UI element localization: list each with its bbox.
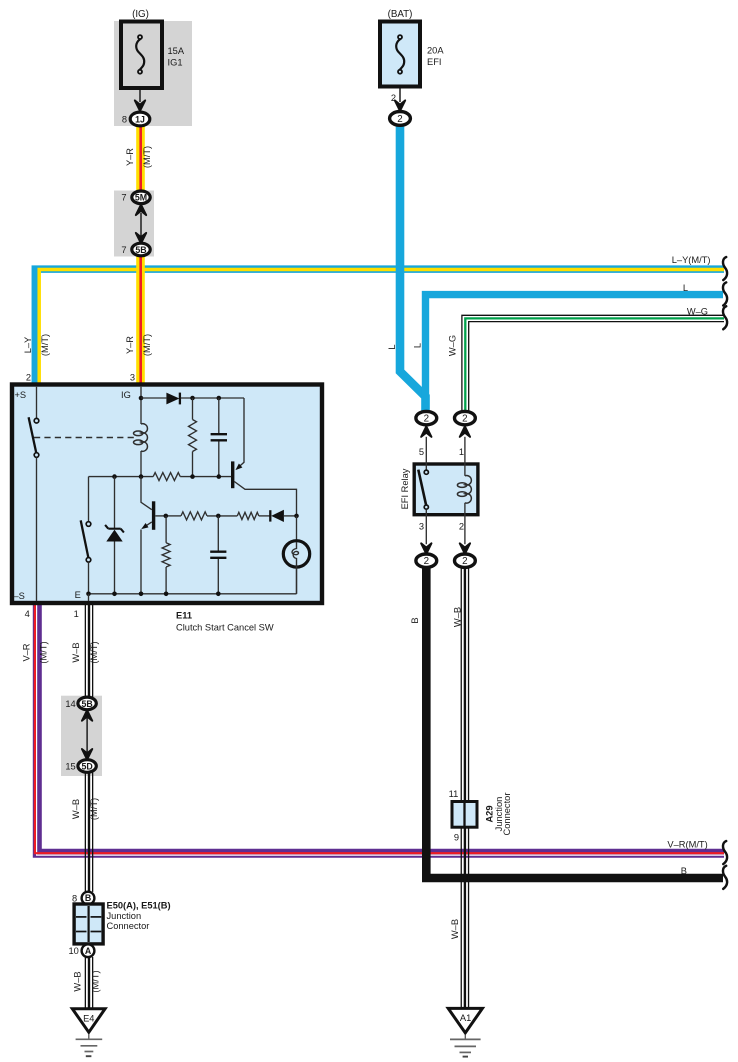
svg-text:(M/T): (M/T): [89, 798, 99, 820]
svg-text:9: 9: [454, 833, 459, 843]
svg-text:W–G: W–G: [448, 335, 458, 356]
svg-text:7: 7: [121, 193, 126, 203]
svg-text:20A: 20A: [427, 46, 444, 56]
svg-text:(BAT): (BAT): [388, 9, 413, 20]
svg-text:11: 11: [449, 789, 459, 799]
svg-text:EFI: EFI: [427, 57, 441, 67]
svg-text:2: 2: [459, 521, 464, 531]
svg-text:IG1: IG1: [168, 58, 183, 68]
svg-text:15: 15: [65, 761, 75, 771]
svg-text:3: 3: [130, 373, 135, 383]
svg-text:EFI Relay: EFI Relay: [400, 468, 410, 509]
svg-text:Connector: Connector: [502, 793, 512, 836]
svg-text:10: 10: [69, 946, 79, 956]
svg-text:L: L: [413, 343, 423, 348]
svg-text:+S: +S: [15, 390, 27, 400]
svg-text:3: 3: [419, 521, 424, 531]
svg-text:L–Y(M/T): L–Y(M/T): [672, 255, 711, 265]
svg-text:Junction: Junction: [107, 911, 142, 921]
svg-text:W–B: W–B: [71, 799, 81, 819]
svg-text:(IG): (IG): [132, 9, 149, 20]
svg-text:W–B: W–B: [71, 642, 81, 662]
svg-text:B: B: [85, 893, 91, 903]
svg-text:7: 7: [121, 245, 126, 255]
svg-text:8: 8: [122, 115, 127, 125]
svg-text:2: 2: [391, 93, 396, 103]
svg-text:(M/T): (M/T): [40, 334, 50, 356]
svg-text:(M/T): (M/T): [142, 334, 152, 356]
svg-text:IG: IG: [121, 390, 131, 400]
svg-text:2: 2: [462, 556, 467, 567]
svg-text:E11: E11: [176, 611, 192, 621]
svg-text:14: 14: [65, 699, 75, 709]
svg-text:Y–R: Y–R: [125, 336, 135, 354]
svg-text:2: 2: [397, 114, 402, 125]
svg-text:V–R: V–R: [22, 643, 32, 661]
svg-text:8: 8: [72, 893, 77, 903]
svg-text:B: B: [410, 617, 420, 623]
svg-text:Connector: Connector: [107, 921, 150, 931]
svg-text:1: 1: [74, 609, 79, 619]
svg-text:W–B: W–B: [450, 919, 460, 939]
svg-text:4: 4: [25, 609, 30, 619]
svg-text:E50(A), E51(B): E50(A), E51(B): [107, 900, 171, 910]
svg-text:L: L: [683, 283, 688, 293]
svg-text:V–R(M/T): V–R(M/T): [667, 839, 707, 849]
svg-text:W–B: W–B: [453, 607, 463, 627]
svg-text:–S: –S: [14, 591, 25, 601]
svg-text:5B: 5B: [81, 699, 92, 709]
svg-text:L–Y: L–Y: [23, 337, 33, 354]
svg-text:(M/T): (M/T): [39, 641, 49, 663]
svg-text:L: L: [387, 344, 397, 349]
svg-text:W–B: W–B: [73, 971, 83, 991]
svg-text:2: 2: [462, 414, 467, 425]
svg-text:5D: 5D: [81, 761, 92, 771]
svg-text:A1: A1: [460, 1013, 471, 1023]
svg-text:2: 2: [424, 414, 429, 425]
svg-text:E: E: [75, 590, 81, 600]
svg-text:(M/T): (M/T): [142, 146, 152, 168]
svg-text:W–G: W–G: [687, 307, 708, 317]
svg-text:(M/T): (M/T): [91, 970, 101, 992]
svg-text:5: 5: [419, 447, 424, 457]
svg-text:A: A: [85, 946, 92, 956]
svg-text:2: 2: [424, 556, 429, 567]
svg-text:B: B: [681, 866, 687, 876]
svg-text:5M: 5M: [135, 193, 147, 203]
svg-text:(M/T): (M/T): [89, 641, 99, 663]
svg-text:A29: A29: [484, 805, 494, 822]
svg-text:2: 2: [26, 373, 31, 383]
svg-text:E4: E4: [83, 1013, 94, 1023]
svg-text:1: 1: [459, 447, 464, 457]
svg-text:1J: 1J: [135, 114, 145, 124]
svg-text:15A: 15A: [168, 46, 185, 56]
svg-text:Y–R: Y–R: [125, 148, 135, 166]
svg-text:Clutch Start Cancel SW: Clutch Start Cancel SW: [176, 622, 274, 632]
svg-text:5B: 5B: [135, 245, 146, 255]
